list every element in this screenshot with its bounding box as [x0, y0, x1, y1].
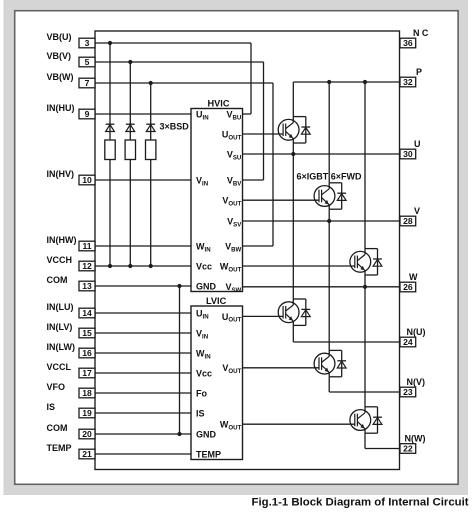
- svg-text:VCCL: VCCL: [47, 362, 72, 372]
- wire Q2 emitter to Q5 collector: [328, 209, 330, 350]
- svg-text:12: 12: [82, 261, 92, 271]
- wire VCCL row: [95, 372, 191, 374]
- wire LVIC WOUT to Q6 gate: [243, 423, 355, 425]
- svg-text:P: P: [416, 67, 422, 77]
- wire Q5 emitter to N(V): [328, 377, 330, 392]
- svg-text:20: 20: [82, 429, 92, 439]
- svg-text:30: 30: [403, 149, 413, 159]
- pin 14 box: [79, 308, 95, 318]
- pin 13 box: [79, 281, 95, 291]
- wire bootstrap branch 1 vertical: [109, 43, 111, 266]
- svg-text:LVIC: LVIC: [206, 296, 227, 306]
- svg-text:IN(HV): IN(HV): [47, 169, 75, 179]
- bootstrap diode D1 (BSD): [106, 124, 115, 131]
- svg-text:VFO: VFO: [47, 382, 66, 392]
- junction: BSD1 to VB wire: [108, 41, 112, 45]
- resistor R2 (bootstrap): [125, 140, 135, 160]
- junction V row / Q2 emitter / Q5 collector: [327, 219, 331, 223]
- svg-text:VB(U): VB(U): [47, 32, 72, 42]
- svg-text:GND: GND: [196, 281, 217, 291]
- wire VFO row: [95, 392, 191, 394]
- wire VB(W) vertical to HVIC VBW: [272, 83, 274, 246]
- wire HVIC VOUT to Q2 gate: [243, 199, 319, 201]
- wire N(W) row: [365, 448, 400, 450]
- wire VB(U) pin3 row: [95, 42, 251, 44]
- pin 22 box: [400, 444, 416, 454]
- wire Q3 emitter to Q6 collector: [364, 275, 366, 407]
- pin 3 box: [79, 38, 95, 48]
- svg-text:TEMP: TEMP: [196, 449, 221, 459]
- pin 30 box: [400, 149, 416, 159]
- svg-text:22: 22: [403, 444, 413, 454]
- wire P bus row: [293, 81, 400, 83]
- pin 24 box: [400, 337, 416, 347]
- svg-text:11: 11: [82, 241, 91, 251]
- wire P to Q1 collector: [292, 82, 294, 117]
- svg-text:IN(HU): IN(HU): [47, 103, 75, 113]
- resistor R1 (bootstrap): [105, 140, 115, 160]
- pin 36 box: [400, 38, 416, 48]
- svg-text:6×IGBT 6×FWD: 6×IGBT 6×FWD: [297, 172, 363, 182]
- wire VB(V) pin5 row: [95, 61, 264, 63]
- wire U output row: [243, 153, 400, 155]
- wire LVIC UOUT to Q4 gate: [243, 315, 283, 317]
- wire TEMP row: [95, 453, 191, 455]
- wire IN(LW) row: [95, 352, 191, 354]
- svg-text:9: 9: [85, 109, 90, 119]
- wire Q1 emitter to Q4 collector: [292, 143, 294, 299]
- pin 21 box: [79, 449, 95, 459]
- svg-text:Fo: Fo: [196, 388, 207, 398]
- svg-text:17: 17: [82, 368, 92, 378]
- junction COM/HVIC GND: [177, 284, 181, 288]
- transistor Q6 (IGBT) with freewheel diode D6: [350, 407, 382, 433]
- junction W row / Q3 emitter / Q6 collector: [363, 285, 367, 289]
- svg-text:16: 16: [82, 348, 92, 358]
- pin 28 box: [400, 216, 416, 226]
- svg-text:Vcc: Vcc: [196, 368, 212, 378]
- transistor Q5 (IGBT) with freewheel diode D5: [314, 350, 346, 376]
- junction U row / Q1 emitter / Q4 collector: [291, 152, 295, 156]
- svg-text:3: 3: [85, 38, 90, 48]
- transistor Q3 (IGBT) with freewheel diode D3: [350, 249, 382, 275]
- pin 15 box: [79, 328, 95, 338]
- transistor Q2 (IGBT) with freewheel diode D2: [314, 183, 346, 209]
- svg-text:VB(V): VB(V): [47, 51, 72, 61]
- junction: BSD3 to VCCH row: [149, 264, 153, 268]
- wire COM link vertical: [179, 286, 181, 434]
- wire IN(LU) row: [95, 312, 191, 314]
- pin 19 box: [79, 408, 95, 418]
- svg-text:VCCH: VCCH: [47, 255, 73, 265]
- svg-text:GND: GND: [196, 429, 217, 439]
- pin 17 box: [79, 368, 95, 378]
- wire IN(LV) row: [95, 332, 191, 334]
- wire Q4 emitter to N(U): [292, 325, 294, 342]
- junction: BSD2 to VCCH row: [128, 264, 132, 268]
- op-amp U2: LVIC block: [191, 306, 243, 460]
- pin 9 box: [79, 109, 95, 119]
- pin 20 box: [79, 429, 95, 439]
- svg-text:3×BSD: 3×BSD: [160, 122, 190, 132]
- wire N(V) row: [329, 391, 400, 393]
- svg-text:U: U: [414, 139, 421, 149]
- wire COM row: [95, 433, 191, 435]
- wire HVIC WOUT to Q3 gate: [243, 265, 355, 267]
- transistor Q1 (IGBT) with freewheel diode D1: [278, 117, 310, 143]
- wire COM pin13 row: [95, 285, 191, 287]
- svg-text:IS: IS: [47, 402, 56, 412]
- pin 26 box: [400, 282, 416, 292]
- wire P to Q3 collector: [364, 82, 366, 249]
- svg-text:Vcc: Vcc: [196, 261, 212, 271]
- wire Q6 emitter to N(W): [364, 433, 366, 448]
- wire IN(HW) pin11 row: [95, 245, 191, 247]
- wire IN(HU) pin9 row: [95, 113, 191, 115]
- svg-text:18: 18: [82, 388, 92, 398]
- svg-text:NC: NC: [413, 28, 431, 38]
- junction: BSD2 to VB wire: [128, 60, 132, 64]
- op-amp U1: HVIC block: [191, 109, 243, 292]
- pin 16 box: [79, 348, 95, 358]
- svg-text:VB(W): VB(W): [47, 72, 74, 82]
- wire VB(W) pin7 row: [95, 82, 273, 84]
- svg-text:N(U): N(U): [407, 327, 426, 337]
- svg-text:HVIC: HVIC: [208, 99, 230, 109]
- wire LVIC VOUT to Q5 gate: [243, 367, 319, 369]
- pin 32 box: [400, 77, 416, 87]
- svg-text:IN(LV): IN(LV): [47, 322, 73, 332]
- svg-text:W: W: [409, 272, 418, 282]
- transistor Q4 (IGBT) with freewheel diode D4: [278, 299, 310, 325]
- svg-text:24: 24: [403, 337, 413, 347]
- svg-text:10: 10: [82, 175, 92, 185]
- junction COM/LVIC GND: [177, 432, 181, 436]
- svg-text:23: 23: [403, 387, 413, 397]
- svg-text:26: 26: [403, 282, 413, 292]
- wire IN(HV) pin10 row: [95, 179, 191, 181]
- wire P to Q2 collector: [328, 82, 330, 183]
- svg-text:IN(HW): IN(HW): [47, 235, 77, 245]
- svg-text:21: 21: [82, 449, 92, 459]
- svg-text:N(V): N(V): [407, 377, 426, 387]
- svg-text:36: 36: [403, 38, 413, 48]
- pin 11 box: [79, 241, 95, 251]
- junction: BSD1 to VCCH row: [108, 264, 112, 268]
- bootstrap diode D3 (BSD): [146, 124, 155, 131]
- wire into HVIC VBU: [243, 113, 251, 115]
- wire VB(V) vertical to HVIC VBV: [263, 62, 265, 180]
- svg-text:V: V: [414, 206, 420, 216]
- pin 5 box: [79, 57, 95, 67]
- pin 23 box: [400, 387, 416, 397]
- svg-text:N(W): N(W): [405, 433, 426, 443]
- wire VCCH pin12 row: [95, 265, 191, 267]
- wire HVIC UOUT to Q1 gate: [243, 133, 283, 135]
- svg-text:COM: COM: [47, 423, 68, 433]
- wire bootstrap branch 2 vertical: [129, 62, 131, 266]
- svg-text:IN(LW): IN(LW): [47, 342, 76, 352]
- pin 7 box: [79, 78, 95, 88]
- svg-text:15: 15: [82, 328, 92, 338]
- module outline (package boundary): [95, 31, 400, 470]
- svg-text:IN(LU): IN(LU): [47, 302, 74, 312]
- wire into HVIC VBV: [243, 179, 264, 181]
- svg-text:32: 32: [403, 77, 413, 87]
- svg-text:14: 14: [82, 308, 92, 318]
- wire N(U) row: [293, 341, 400, 343]
- pin 12 box: [79, 261, 95, 271]
- svg-text:5: 5: [85, 57, 90, 67]
- resistor R3 (bootstrap): [146, 140, 156, 160]
- wire bootstrap branch 3 vertical: [150, 83, 152, 266]
- junction P bus / Q3 collector: [363, 80, 367, 84]
- junction P bus / Q2 collector: [327, 80, 331, 84]
- wire into HVIC VBW: [243, 245, 273, 247]
- pin 10 box: [79, 175, 95, 185]
- junction: BSD3 to VB wire: [149, 81, 153, 85]
- svg-text:IS: IS: [196, 408, 205, 418]
- wire IS row: [95, 412, 191, 414]
- svg-text:28: 28: [403, 216, 413, 226]
- svg-text:19: 19: [82, 408, 92, 418]
- svg-text:TEMP: TEMP: [47, 443, 72, 453]
- svg-text:7: 7: [85, 78, 90, 88]
- bootstrap diode D2 (BSD): [126, 124, 135, 131]
- svg-text:13: 13: [82, 281, 92, 291]
- wire W output row: [243, 286, 400, 288]
- svg-text:COM: COM: [47, 275, 68, 285]
- svg-text:Fig.1-1 Block Diagram of Inter: Fig.1-1 Block Diagram of Internal Circui…: [252, 497, 469, 509]
- pin 18 box: [79, 388, 95, 398]
- wire V output row: [243, 220, 400, 222]
- wire VB(U) vertical to HVIC VBU: [250, 43, 252, 114]
